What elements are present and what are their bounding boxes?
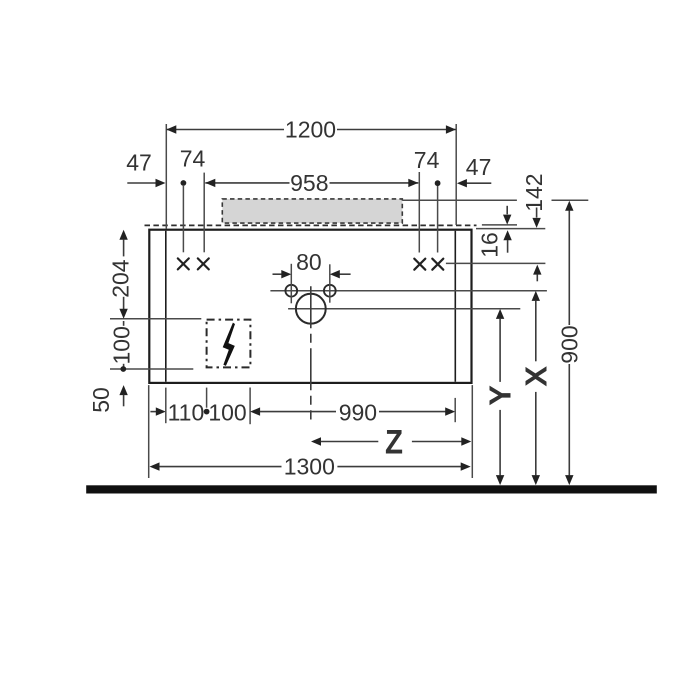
dimension Z: [311, 437, 321, 445]
console dashed line: [145, 224, 477, 226]
svg-text:74: 74: [414, 147, 440, 173]
tick 958 left, drops to x-mark: [203, 173, 205, 253]
svg-text:100: 100: [208, 399, 246, 425]
cabinet right side panel line: [454, 231, 456, 382]
svg-text:110: 110: [168, 399, 205, 425]
large faucet circle: [296, 294, 326, 324]
sink footprint (gray dashed rectangle): [222, 199, 402, 223]
dimension 74 right: dot terminator: [435, 180, 441, 186]
faucet hole line lower (through large circle, to Y dim): [288, 308, 520, 310]
electrical connection box (dash-dot): [207, 320, 251, 368]
x-mark left 1: [178, 258, 189, 269]
svg-text:80: 80: [296, 249, 322, 275]
dimension 958: [205, 182, 418, 184]
svg-text:47: 47: [466, 154, 492, 180]
tick below cabinet outer-left: [148, 385, 150, 478]
dot terminator between 110 and 100: [204, 409, 210, 415]
tick below electrical box right edge: [249, 388, 251, 425]
tick below cabinet outer-right: [471, 385, 473, 478]
svg-text:990: 990: [339, 400, 377, 426]
svg-text:Z: Z: [385, 423, 403, 461]
cabinet outline: [149, 230, 471, 383]
svg-text:204: 204: [107, 259, 133, 298]
svg-text:50: 50: [88, 387, 114, 413]
dimension 1200: [166, 129, 456, 131]
dimension 204: [119, 230, 127, 240]
floor bar: [86, 485, 657, 493]
dimension 990: [260, 411, 336, 413]
svg-text:900: 900: [556, 325, 582, 363]
faucet hole line upper (through small circles, to X dim): [270, 290, 547, 292]
dimension 1300: [150, 462, 160, 470]
tick 958 right, drops to x-mark: [418, 172, 420, 253]
dimension 900: [565, 201, 573, 211]
right side tick lines: [402, 199, 517, 201]
dimension 100 (left): [123, 321, 125, 326]
svg-text:Y: Y: [482, 385, 517, 406]
x-mark right 2: [432, 259, 443, 270]
left dim ticks: [110, 318, 201, 320]
svg-text:100: 100: [109, 326, 135, 364]
svg-text:1300: 1300: [284, 453, 335, 479]
small circle left with tick: [285, 285, 297, 297]
bottom dimension row: 110 / 100 / 990: [150, 411, 156, 413]
dimension 47 left: [127, 182, 156, 184]
svg-text:47: 47: [126, 150, 152, 176]
x-mark left 2: [198, 258, 209, 269]
x-mark right 1: [414, 259, 425, 270]
centerline through faucet circle: [310, 286, 312, 419]
dimension 50: [119, 385, 127, 395]
svg-text:1200: 1200: [285, 117, 336, 143]
dimension 74 left: dot terminator: [181, 180, 187, 186]
lightning bolt: [223, 323, 235, 366]
tick below cabinet inner-left: [165, 388, 167, 424]
tick below cabinet inner-right: [454, 398, 456, 422]
extension line left (1200): [165, 124, 167, 229]
dimension 16 (console thickness, outside arrows): [506, 206, 508, 215]
svg-text:74: 74: [180, 146, 206, 172]
cabinet left side panel line: [165, 231, 167, 382]
svg-text:16: 16: [476, 232, 502, 258]
extension line right (1200): [455, 124, 457, 225]
dimension Y: [496, 309, 504, 319]
dimension X: [532, 291, 540, 301]
small circle right with tick: [324, 285, 336, 297]
dimension 47 right: [466, 182, 491, 184]
svg-text:958: 958: [290, 170, 328, 196]
svg-text:142: 142: [521, 173, 547, 211]
svg-text:X: X: [518, 366, 553, 387]
